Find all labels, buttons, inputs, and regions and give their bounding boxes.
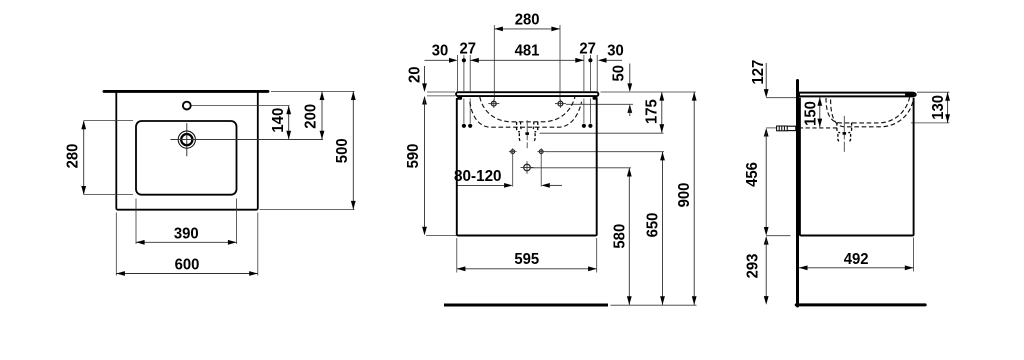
- side view: extension bowl-bottom (130): [911, 122, 950, 124]
- front view: dim 50 lower arrow: [627, 104, 632, 113]
- left view: wall line behind basin: [104, 90, 268, 93]
- side view: slab edge core: [906, 93, 914, 95]
- front view: extension waste level to 175-dim: [540, 132, 664, 134]
- svg-text:20: 20: [407, 66, 424, 83]
- left view: basin outer rim rectangle 600x500: [116, 92, 257, 210]
- side view: dim 293 line: [765, 240, 767, 301]
- side view: dim 150 line: [819, 97, 821, 127]
- left view: extension line bottom edge right (500 bottom): [260, 209, 355, 211]
- svg-text:492: 492: [844, 251, 869, 268]
- front view: extension line fixing hole A up: [463, 55, 465, 91]
- front view: dim 50 upper arrow: [627, 83, 632, 92]
- front view: drain lower-right hook: [532, 133, 535, 141]
- front view: floor line: [444, 304, 608, 307]
- side view: dim 150 top arrow: [817, 97, 822, 106]
- svg-text:30: 30: [432, 43, 449, 60]
- svg-text:580: 580: [612, 224, 629, 249]
- svg-text:130: 130: [930, 95, 947, 120]
- svg-text:500: 500: [334, 138, 351, 163]
- front view: tap hole ext overlay right: [559, 93, 561, 96]
- left view: extension line outer left below (600): [115, 213, 117, 276]
- side view: dimension 130: [947, 92, 949, 123]
- front view: extension mounting-holes level (650 top): [545, 151, 664, 153]
- svg-text:280: 280: [515, 12, 540, 29]
- svg-text:27: 27: [460, 41, 477, 58]
- front view: dim 80-120 right line+arrow: [550, 184, 562, 186]
- svg-text:30: 30: [607, 43, 624, 60]
- front view: extension line tap hole right up (280): [559, 25, 561, 100]
- front view: fixing hole D drop line: [589, 99, 591, 124]
- side view: cabinet body side: [800, 98, 914, 236]
- side view: dim 150 bottom arrow: [817, 119, 822, 128]
- left view: extension line outer right below (600): [257, 213, 259, 276]
- front view: dot 27 right: [588, 58, 592, 62]
- front view: tap hole ext overlay left: [493, 93, 495, 96]
- front view: tap hole symbol right: [558, 101, 563, 106]
- side view: dim 456 bottom arrow: [764, 227, 769, 236]
- svg-text:127: 127: [750, 60, 767, 85]
- side view: waste pipe dashed line: [799, 127, 839, 129]
- side view: wall pipe fitting body: [787, 126, 796, 130]
- side view: extension cabinet-bottom to 456-dim: [766, 235, 790, 237]
- svg-text:456: 456: [744, 162, 761, 187]
- front view: mounting hole right: [539, 150, 543, 154]
- left view: extension line 280 top: [84, 120, 133, 122]
- side view: trap lower-left hook: [838, 134, 841, 142]
- front view: dim 20 upper arrow: [422, 83, 427, 92]
- side view: dimension 492 cabinet depth: [799, 267, 914, 269]
- left view: extension line bowl right below (390): [236, 199, 238, 245]
- left view: dimension 280 (bowl depth): [83, 121, 85, 195]
- front view: dimension 30 left arrow: [449, 58, 458, 63]
- front view: extension line slab-left corner up (30 left): [457, 55, 459, 91]
- front view: slab joint left: [457, 96, 462, 99]
- side view: washbasin slab profile: [799, 93, 916, 97]
- left view: dimension 140 (overflow to tap): [288, 106, 290, 140]
- front view: extension line fixing hole B up: [469, 55, 471, 91]
- front view: dimension 30 right arrow: [598, 58, 607, 63]
- front view: bowl outer dashed curve: [470, 102, 582, 127]
- svg-text:650: 650: [644, 212, 661, 237]
- front view: dot 27 left: [462, 58, 466, 62]
- front view: drain lower-left hook: [519, 133, 522, 141]
- front view: dim 50 upper line: [629, 64, 631, 88]
- side view: drain centerline tick: [843, 132, 847, 135]
- svg-text:150: 150: [802, 101, 819, 126]
- svg-text:27: 27: [579, 41, 596, 58]
- svg-text:50: 50: [611, 65, 628, 82]
- front view: dimension 481 between fixing holes: [470, 59, 584, 61]
- left view: tap hole crosshair vertical: [186, 123, 188, 156]
- front view: extension slab bottom-left to 20-dim: [427, 95, 455, 97]
- front view: mounting hole left drop line: [512, 155, 514, 187]
- front view: dimension 900 top to floor: [693, 92, 695, 305]
- side view: wall line: [796, 81, 799, 307]
- side view: pipe centerline to wall: [766, 127, 776, 129]
- front view: extension drain level (580 top): [531, 167, 631, 169]
- svg-text:390: 390: [174, 226, 199, 243]
- front view: dimension 595 cabinet width: [457, 268, 597, 270]
- side view: dim 127 upper line: [765, 63, 767, 89]
- svg-text:293: 293: [745, 253, 762, 278]
- side view: drain centerline: [843, 116, 845, 140]
- front view: dimension 175 slab top to waste: [661, 92, 663, 133]
- front view: dimension 30 left line: [425, 59, 449, 61]
- front view: extension cabinet bottom-right down (595): [596, 238, 598, 273]
- side view: dim 127 upper arrow: [764, 89, 769, 98]
- side view: dim 293 bottom arrow: [764, 296, 769, 305]
- front view: extension cabinet bottom-left down (595): [456, 238, 458, 273]
- front view: extension slab top-left to 20-dim: [427, 91, 455, 93]
- side view: bowl outer dashed curve: [831, 100, 914, 127]
- front view: dim 590 line: [424, 99, 426, 231]
- front view: drain trap outer-right hook: [535, 122, 538, 132]
- front view: washbasin slab: [456, 92, 598, 96]
- left view: extension line 280 bottom: [84, 194, 133, 196]
- left view: tap hole outer circle: [178, 131, 195, 148]
- front view: fixing hole D dot: [588, 124, 592, 128]
- side view: extension slab-top-right (130): [917, 91, 950, 93]
- front view: fixing hole B dot: [468, 124, 472, 128]
- left view: extension line bowl left below (390): [135, 199, 137, 245]
- side view: trap outer-left hook: [837, 123, 840, 133]
- left view: dimension 500 (basin depth): [352, 91, 354, 209]
- front view: fixing hole C drop line: [583, 99, 585, 124]
- front view: fixing hole C dot: [582, 124, 586, 128]
- svg-text:590: 590: [405, 143, 422, 168]
- side view: floor line: [796, 303, 925, 306]
- front view: dim 590 bottom arrow: [422, 227, 427, 236]
- svg-text:600: 600: [175, 257, 200, 274]
- front view: dimension 580 drain to floor: [628, 168, 630, 305]
- front view: drain centerline: [526, 120, 528, 140]
- side view: dim 456 line: [765, 131, 767, 231]
- front view: mounting hole left: [511, 150, 515, 154]
- front view: fixing hole A drop line: [463, 99, 465, 124]
- svg-text:280: 280: [65, 143, 82, 168]
- front view: extension tap-hole level to 50-dim: [566, 103, 633, 105]
- front view: bowl inner dashed curve: [480, 97, 575, 122]
- side view: dim 127/456 shared arrow: [764, 128, 769, 137]
- front view: drain centerline tick: [525, 132, 529, 135]
- svg-text:481: 481: [515, 43, 540, 60]
- side view: dim 293 top arrow: [764, 236, 769, 245]
- left view: extension line top edge right (200/500 top): [271, 90, 355, 92]
- front view: extension cabinet bottom-left to 590-dim: [426, 235, 456, 237]
- left view: extension line from overflow hole (140 top): [192, 105, 290, 107]
- front view: tap hole symbol left: [491, 101, 496, 106]
- side view: trap outer-right hook: [848, 123, 851, 133]
- front view: extension floor level right (900 bottom): [611, 304, 697, 306]
- front view: extension line fixing hole D up: [589, 55, 591, 91]
- side view: extension slab-bottom to 127-dim: [766, 97, 796, 99]
- front view: extension slab top-right going right (900 top): [601, 91, 696, 93]
- front view: drain trap inner-left hook: [521, 122, 524, 130]
- front view: fixing hole B drop line: [469, 99, 471, 124]
- side view: extension cabinet-right down (492): [913, 238, 915, 272]
- front view: mounting hole right drop line: [540, 155, 542, 187]
- front view: fixing hole A dot: [462, 124, 466, 128]
- front view: dim 590/20 shared arrow up: [422, 96, 427, 105]
- front view: dim 20 upper line: [424, 66, 426, 87]
- left view: tap hole crosshair horizontal + extension to dims: [170, 139, 323, 141]
- svg-text:595: 595: [514, 251, 539, 268]
- svg-text:80-120: 80-120: [454, 168, 502, 185]
- front view: extension line fixing hole C up: [583, 55, 585, 91]
- front view: dimension 30 right line: [606, 59, 622, 61]
- front view: drain outlet hole: [524, 164, 531, 171]
- front view: extension line slab-right corner up (30 right): [596, 55, 598, 91]
- left view: inner bowl rounded rectangle: [136, 121, 237, 195]
- front view: extension line tap hole left up (280): [493, 25, 495, 100]
- left view: overflow hole circle: [183, 102, 191, 110]
- svg-text:175: 175: [643, 99, 660, 124]
- left view: dimension 390 (bowl width): [136, 241, 237, 243]
- front view: dim 50 lower stub: [629, 108, 631, 116]
- left view: tap hole inner circle: [181, 134, 192, 145]
- svg-text:140: 140: [270, 108, 287, 133]
- front view: dimension 280 between tap holes: [494, 28, 560, 30]
- front view: drain trap outer-left hook: [517, 122, 520, 132]
- side view: wall pipe fitting threads: [777, 126, 788, 131]
- side view: bowl inner dashed curve: [826, 98, 910, 123]
- left view: dimension 600 (basin width): [116, 273, 257, 275]
- side view: trap lower-right hook: [848, 134, 851, 142]
- front view: dim 80-120 left line+arrow: [457, 184, 505, 186]
- left view: dimension 200 (edge to tap): [321, 91, 323, 139]
- front view: slab joint right: [593, 96, 598, 99]
- front view: drain trap inner-right hook: [531, 122, 534, 130]
- svg-text:900: 900: [676, 182, 693, 207]
- front view: cabinet body: [457, 98, 597, 236]
- svg-text:200: 200: [302, 104, 319, 129]
- front view: dimension 650 holes to floor: [662, 152, 664, 305]
